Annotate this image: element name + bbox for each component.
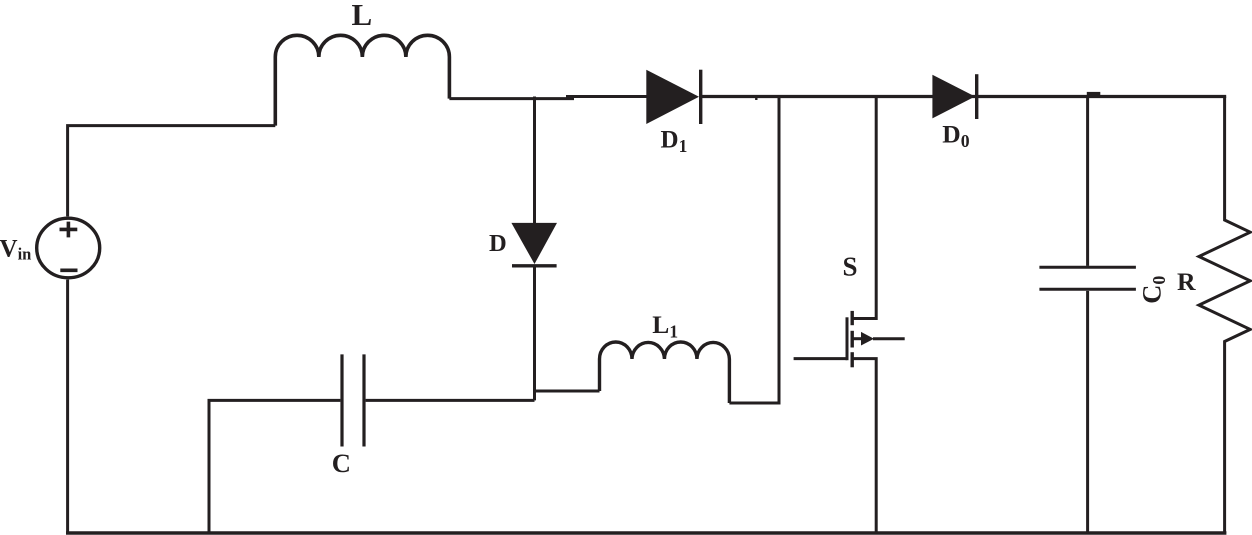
- channel dash top: [851, 311, 854, 325]
- inductor L1: [600, 342, 730, 403]
- svg-text:R: R: [1177, 267, 1196, 296]
- diode D: [511, 97, 557, 401]
- capacitor C0 top lead with junction nub: [1086, 97, 1089, 266]
- wire Vin bottom lead: [66, 280, 69, 533]
- svg-text:L: L: [352, 0, 373, 32]
- capacitor C0: [1039, 267, 1136, 289]
- wire overlap nub near x=757: [755, 97, 757, 101]
- svg-text:C0: C0: [1137, 276, 1170, 304]
- svg-text:D0: D0: [942, 120, 969, 152]
- svg-text:Vin: Vin: [0, 235, 31, 263]
- svg-text:S: S: [843, 252, 858, 282]
- capacitor C0 bottom lead: [1086, 291, 1089, 533]
- diode D0: [932, 74, 976, 119]
- body lead with arrow: [852, 337, 861, 340]
- channel dash bottom: [851, 352, 854, 367]
- svg-text:C: C: [332, 448, 351, 478]
- svg-text:D1: D1: [661, 126, 688, 156]
- wire vertical drop at x=779 and link to L1 right end: [729, 97, 779, 404]
- capacitor C: [342, 354, 364, 446]
- gate lead: [794, 357, 847, 360]
- wire bottom net: [66, 531, 1226, 535]
- svg-text:D: D: [489, 230, 507, 257]
- voltage source Vin: [37, 218, 100, 278]
- wire C branch: horizontal and left vertical to bottom: [209, 400, 535, 533]
- channel dash middle: [851, 331, 854, 348]
- wire L to D1 anode (with step): [449, 97, 574, 100]
- svg-text:L1: L1: [652, 310, 678, 342]
- wire Vin top lead to L: [68, 126, 276, 217]
- gate bar: [846, 317, 849, 360]
- wire D node to L1 left end: [535, 390, 600, 393]
- source lead and vertical to bottom net: [852, 359, 876, 533]
- drain lead and vertical to top net: [852, 97, 876, 319]
- resistor R: [1199, 97, 1250, 534]
- MOSFET S: [794, 97, 905, 534]
- inductor L: [275, 35, 449, 125]
- wire top net D1 cathode to R corner: [699, 95, 1226, 98]
- diode D1: [646, 70, 700, 124]
